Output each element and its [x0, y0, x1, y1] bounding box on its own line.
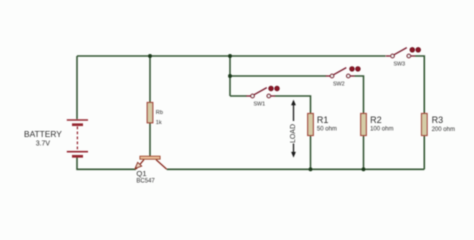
- node junction SW2 branch: [228, 74, 232, 78]
- svg-text:3.7V: 3.7V: [36, 141, 51, 148]
- switch SW3: [386, 47, 421, 67]
- resistor R3 200 ohm: [422, 114, 428, 136]
- resistor R1 50 ohm: [308, 114, 314, 136]
- svg-text:BATTERY: BATTERY: [24, 129, 62, 139]
- wire R1 bottom: [310, 136, 312, 170]
- wire Rb top: [149, 56, 151, 103]
- svg-text:50 ohm: 50 ohm: [317, 126, 337, 132]
- LOAD arrow annotation: [293, 104, 295, 154]
- svg-text:Q1: Q1: [136, 169, 146, 178]
- wire R3 bottom: [423, 136, 425, 170]
- wire to SW1: [230, 95, 247, 97]
- wire SW2 to R2: [354, 76, 363, 114]
- node junction branch top: [228, 54, 232, 58]
- svg-text:100 ohm: 100 ohm: [370, 127, 393, 133]
- wire SW1 to R1: [275, 96, 311, 114]
- node junction R1 bottom: [309, 167, 313, 171]
- wire battery top: [76, 56, 78, 119]
- wire SW3 to R3: [415, 56, 424, 114]
- wire bottom rail: [167, 168, 425, 170]
- wire Rb bottom to base: [149, 123, 151, 156]
- svg-text:SW2: SW2: [333, 82, 345, 88]
- svg-text:R2: R2: [370, 115, 382, 125]
- switch SW1: [246, 86, 279, 108]
- resistor Rb: [147, 103, 153, 123]
- node junction R2 bottom: [362, 167, 366, 171]
- wire to SW2: [230, 75, 326, 77]
- svg-text:SW3: SW3: [393, 62, 405, 68]
- svg-text:R1: R1: [317, 115, 329, 125]
- wire battery bottom to emitter: [77, 157, 136, 169]
- svg-text:Rb: Rb: [156, 110, 163, 116]
- svg-text:BC547: BC547: [136, 179, 155, 185]
- svg-text:SW1: SW1: [253, 102, 265, 108]
- svg-text:200 ohm: 200 ohm: [432, 127, 455, 133]
- wire R2 bottom: [363, 136, 365, 170]
- resistor R2 100 ohm: [361, 114, 367, 136]
- svg-text:LOAD: LOAD: [290, 124, 297, 143]
- svg-text:R3: R3: [432, 115, 444, 125]
- wire top rail: [77, 55, 386, 57]
- wire branch vertical: [229, 56, 231, 96]
- node junction Rb top: [148, 54, 152, 58]
- switch SW2: [326, 67, 361, 88]
- svg-text:1k: 1k: [156, 120, 162, 126]
- transistor Q1 BC547: [135, 156, 166, 169]
- battery BAT1 3.7V: [67, 120, 88, 156]
